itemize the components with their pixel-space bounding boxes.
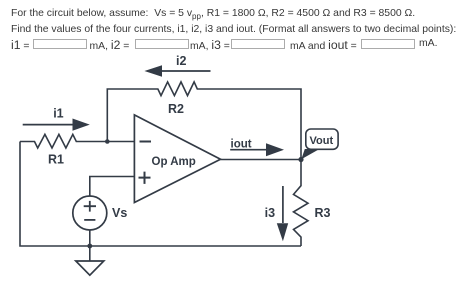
svg-text:i1: i1 [53,106,63,120]
svg-text:iout: iout [231,138,252,150]
svg-text:Op Amp: Op Amp [152,156,196,168]
svg-text:R2: R2 [168,102,184,116]
svg-text:i2: i2 [176,54,186,68]
svg-text:i3: i3 [265,206,275,220]
svg-text:R3: R3 [315,206,331,220]
svg-text:Vs: Vs [112,206,127,220]
svg-text:Vout: Vout [310,135,334,147]
svg-text:R1: R1 [48,153,64,167]
